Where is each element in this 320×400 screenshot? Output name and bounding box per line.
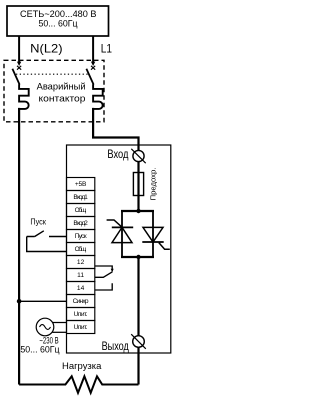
output terminal circle	[133, 336, 145, 348]
connector arrow right pole	[91, 62, 95, 66]
relay contact blade from 11	[95, 272, 113, 278]
svg-text:Аварийный: Аварийный	[37, 81, 86, 92]
thyristor VS2 triangle	[143, 227, 163, 242]
contactor pole 2 blade	[86, 69, 93, 85]
emergency contactor dashed box	[4, 60, 104, 122]
svg-text:50... 60Гц: 50... 60Гц	[39, 19, 79, 29]
svg-text:N(L2): N(L2)	[30, 41, 62, 55]
svg-text:Пуск: Пуск	[75, 233, 87, 240]
svg-text:50... 60Гц: 50... 60Гц	[20, 344, 59, 354]
wire L1 from mains box	[92, 36, 94, 62]
terminal strip boxes	[67, 178, 95, 334]
svg-text:Выход: Выход	[102, 339, 129, 353]
svg-text:Предохр.: Предохр.	[148, 168, 157, 201]
svg-text:Общ.: Общ.	[75, 245, 87, 253]
wire from pole 2 to input terminal	[93, 108, 138, 151]
connector arrow left pole	[17, 62, 21, 66]
mains supply box СЕТЬ	[7, 6, 109, 36]
mechanical linkage dotted line	[16, 73, 90, 75]
relay contact stub 12	[95, 266, 112, 271]
svg-text:Uпит.: Uпит.	[74, 324, 88, 331]
svg-text:Вход: Вход	[107, 147, 128, 161]
input terminal slash	[131, 149, 145, 163]
thyristor VS1 triangle	[112, 227, 132, 242]
wire N(L2) from mains box	[18, 36, 20, 62]
contactor pole 2 thermal element	[93, 84, 103, 109]
thyristor block bottom bar	[121, 256, 154, 258]
wire source to Uпит lower	[52, 331, 66, 333]
connector x-mark right pole	[91, 66, 95, 70]
connector x-mark left pole	[17, 66, 21, 70]
svg-text:Нагрузка: Нагрузка	[62, 361, 102, 371]
thyristor block left branch	[121, 211, 123, 257]
node top of thyristor block	[136, 209, 140, 213]
node bottom of thyristor block	[136, 255, 140, 259]
svg-text:Uпит.: Uпит.	[74, 311, 88, 318]
start switch	[27, 231, 67, 252]
wire source to Uпит upper	[53, 322, 67, 324]
thyristor VS2 gate	[159, 243, 170, 250]
relay contact arrow	[111, 269, 114, 273]
thyristor block top bar	[121, 210, 154, 212]
controller enclosure box	[67, 145, 171, 353]
svg-text:11: 11	[77, 272, 84, 279]
svg-text:+5В: +5В	[75, 181, 87, 188]
left rail wire N down to load	[18, 108, 20, 385]
AC source sine	[40, 325, 51, 330]
wire input to fuse	[137, 162, 139, 212]
relay contact stub 14	[95, 283, 112, 290]
AC source G1 circle	[36, 318, 54, 336]
wire rail to Синхр	[19, 300, 66, 302]
contactor pole 1 thermal element	[19, 84, 29, 109]
bottom wire and load resistor zigzag	[19, 376, 138, 393]
svg-text:Вход2: Вход2	[73, 220, 88, 227]
output terminal slash	[131, 334, 146, 349]
svg-text:Общ.: Общ.	[75, 206, 87, 214]
fuse Предохр	[133, 173, 143, 196]
svg-text:14: 14	[77, 285, 85, 292]
input terminal circle	[133, 150, 144, 161]
terminal labels	[73, 181, 89, 331]
thyristor VS1 gate	[107, 220, 122, 227]
thyristor VS1 cathode bar	[112, 226, 133, 228]
contactor pole 1 blade	[12, 69, 19, 85]
node junction rail to Синхр	[17, 299, 22, 304]
svg-text:12: 12	[77, 259, 85, 266]
svg-text:СЕТЬ~200...480 В: СЕТЬ~200...480 В	[20, 9, 97, 19]
svg-text:Синхр: Синхр	[73, 298, 89, 305]
svg-text:Пуск: Пуск	[30, 217, 46, 227]
svg-text:L1: L1	[101, 42, 113, 56]
svg-text:Вход1: Вход1	[73, 194, 88, 201]
thyristor VS2 cathode bar	[142, 241, 163, 243]
wire output down to load	[137, 347, 139, 385]
svg-text:контактор: контактор	[39, 93, 86, 104]
wire thyristor block to output terminal	[137, 257, 139, 336]
thyristor block right branch	[152, 211, 154, 257]
